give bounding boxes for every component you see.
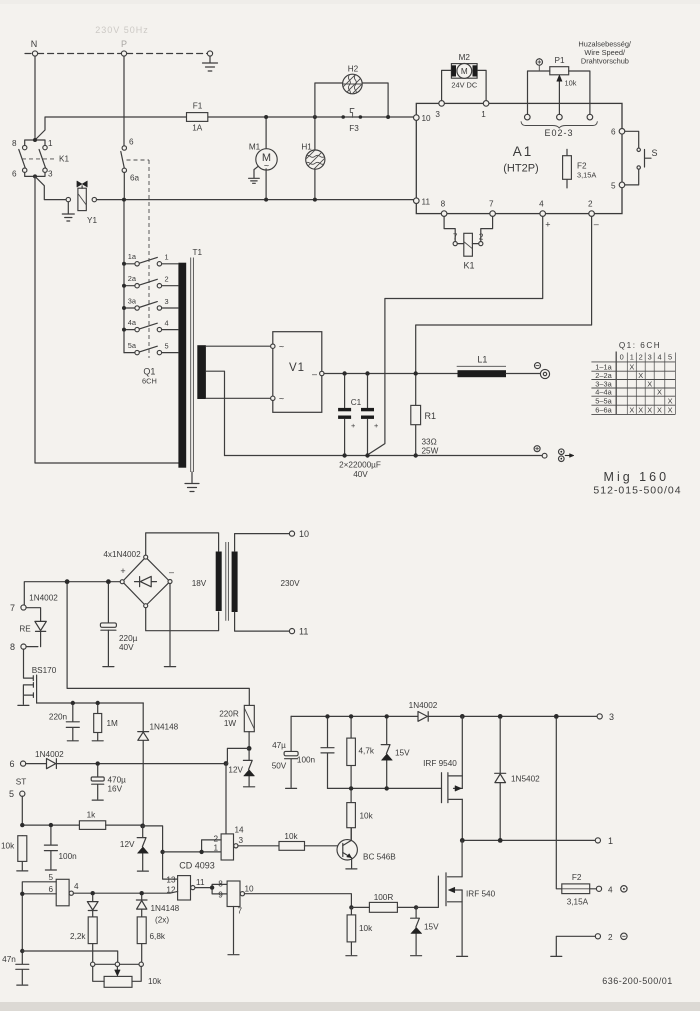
svg-text:H2: H2 [348,65,359,74]
fuse F2 3,15A on A1 [566,149,568,188]
potentiometer P1 10k [550,67,569,75]
resistor 4,7k [350,719,352,789]
svg-text:220µ: 220µ [119,634,138,643]
svg-text:P: P [121,39,127,49]
svg-text:T1: T1 [193,248,203,257]
svg-text:15V: 15V [395,749,410,758]
transformer 18V winding [216,552,222,612]
resistor 10k gate pulldown [346,907,357,955]
svg-text:4: 4 [608,886,613,895]
svg-text:1N4002: 1N4002 [35,750,64,759]
svg-text:3: 3 [165,297,169,306]
svg-text:6: 6 [129,138,134,147]
wire K1 to Y1 rail [35,176,66,199]
switch 6-6a (gas test) [122,146,126,150]
svg-text:2a: 2a [128,274,137,283]
gate D CD4093 driver [227,881,240,907]
svg-text:1N4148: 1N4148 [151,904,180,913]
svg-text:25W: 25W [422,447,439,456]
svg-text:Y1: Y1 [87,216,97,225]
lamp H1 [314,117,316,151]
svg-text:10k: 10k [284,832,298,841]
ground M1 [249,166,260,183]
wire 12V junction to rail [227,748,249,763]
resistor 10k collector [350,791,352,839]
svg-text:4: 4 [74,882,79,891]
wire bridge bottom to 18V winding [146,608,219,631]
svg-text:100R: 100R [374,893,394,902]
relay coil K1 [444,216,493,241]
svg-text:13: 13 [166,876,176,885]
svg-text:8: 8 [218,880,223,889]
svg-text:3: 3 [435,110,440,119]
svg-text:Mig 160: Mig 160 [604,470,669,484]
trimmer 10k [95,963,139,965]
svg-text:2,2k: 2,2k [70,932,86,941]
svg-text:230V: 230V [280,579,300,588]
svg-text:~: ~ [279,394,284,404]
rotary switch Q1 6CH [123,202,125,353]
svg-text:10k: 10k [148,977,162,986]
terminal plus output [534,446,540,452]
svg-text:X: X [657,388,662,397]
zener 12V supply [247,746,252,751]
svg-text:4,7k: 4,7k [359,747,375,756]
wire ramp node to gates [143,826,178,879]
rectifier V1 [273,332,322,413]
svg-text:220R: 220R [219,710,239,719]
wire oscillator output [73,891,177,893]
svg-text:1N4002: 1N4002 [409,701,438,710]
svg-text:X: X [668,397,673,406]
svg-text:1N4148: 1N4148 [150,723,179,732]
svg-text:7: 7 [489,200,494,209]
svg-text:1a: 1a [128,252,137,261]
switch S torch button [625,131,639,185]
svg-text:1N5402: 1N5402 [511,775,540,784]
svg-text:2: 2 [588,200,593,209]
transformer 230V winding [232,552,238,613]
svg-text:X: X [629,406,634,415]
svg-text:IRF 540: IRF 540 [466,890,496,899]
svg-text:Q1: 6CH: Q1: 6CH [619,341,661,350]
svg-text:6a: 6a [130,174,140,183]
zener 12V ramp clamp [140,824,145,829]
svg-text:L1: L1 [477,355,487,365]
svg-text:2: 2 [479,233,484,242]
svg-text:2×22000µF: 2×22000µF [339,461,381,470]
svg-text:5a: 5a [128,341,137,350]
wire +supply rail to terminal 3 [291,715,597,717]
svg-text:1: 1 [630,353,634,362]
connector E02-3 [525,114,531,120]
svg-text:M2: M2 [459,53,471,62]
resistor 100R [351,906,369,908]
svg-text:+: + [120,566,125,576]
svg-text:C1: C1 [351,398,362,407]
svg-text:3a: 3a [128,296,137,305]
svg-text:11: 11 [196,878,205,887]
svg-text:3,15A: 3,15A [577,171,596,180]
wire +24V down-rail to 220R [67,584,249,705]
fan motor M1 [265,117,267,148]
svg-text:2: 2 [608,933,613,942]
svg-text:M: M [461,67,468,76]
svg-text:8: 8 [12,139,17,148]
wire dashed mains line N-P-PE [25,53,207,55]
terminal 5 start [20,791,25,796]
svg-text:N: N [31,39,38,49]
wire feed rollers symbol [559,449,565,455]
resistor 10k start [17,796,28,871]
diode 1N4148 charge [141,895,143,917]
wire output rail to terminal 1 [462,839,595,841]
svg-text:3: 3 [609,712,614,722]
svg-text:5: 5 [48,873,53,882]
solenoid valve Y1 [66,197,70,201]
terminal 1 [595,838,600,843]
fuse F1 1A [187,113,208,122]
svg-text:F2: F2 [572,873,582,882]
svg-text:X: X [629,363,634,372]
transformer T1 secondary [197,345,206,399]
svg-text:BC 546B: BC 546B [363,853,396,862]
transistor BC546B [337,840,357,860]
zener 15V gate [386,719,388,789]
svg-text:10k: 10k [1,842,15,851]
svg-text:X: X [647,379,652,388]
ground T1 core [185,472,199,492]
svg-text:K1: K1 [463,261,474,271]
svg-text:5: 5 [165,341,169,350]
wire A1 pin2 to minus rail [416,216,592,372]
svg-text:9: 9 [218,891,223,900]
svg-text:X: X [647,406,652,415]
svg-text:1: 1 [48,139,53,148]
svg-text:3: 3 [48,170,53,179]
svg-text:3,15A: 3,15A [567,898,589,907]
svg-text:6CH: 6CH [142,377,157,386]
svg-text:50V: 50V [272,762,287,771]
svg-text:+: + [351,421,355,430]
svg-text:8: 8 [10,642,15,652]
svg-text:2: 2 [639,353,643,362]
svg-text:X: X [657,406,662,415]
svg-text:10k: 10k [360,812,374,821]
svg-text:F1: F1 [193,102,203,111]
wire F1 rail to A1 pin10 [35,117,414,140]
svg-text:11: 11 [299,627,308,637]
svg-text:R1: R1 [425,411,437,421]
resistor R1 33R 25W [415,376,417,456]
svg-text:14: 14 [235,826,245,835]
terminal 2 motor minus [595,934,600,939]
svg-text:BS170: BS170 [32,666,57,675]
capacitor 47u 50V [286,716,297,788]
svg-text:7: 7 [453,233,458,242]
wire gate D output to IRF540 [245,894,352,908]
svg-text:4x1N4002: 4x1N4002 [103,550,141,559]
svg-text:5: 5 [9,789,14,799]
svg-text:40V: 40V [353,470,368,479]
svg-text:7: 7 [10,603,15,613]
svg-text:~: ~ [279,342,284,352]
svg-text:636-200-500/01: 636-200-500/01 [602,976,673,986]
resistor 10k base [238,845,279,847]
svg-text:470µ: 470µ [108,776,127,785]
svg-text:4: 4 [657,353,661,362]
capacitor 100n timing [45,827,56,870]
svg-text:1: 1 [165,253,169,262]
svg-text:ST: ST [16,778,26,787]
svg-text:6: 6 [611,128,616,137]
svg-text:1A: 1A [192,124,203,133]
svg-text:220n: 220n [49,713,68,722]
svg-text:5: 5 [668,353,672,362]
ground Y1 [62,202,74,221]
fuse F3 thermal [341,115,345,119]
svg-text:Q1: Q1 [143,367,155,377]
terminal 6 trigger [21,761,26,766]
diode 1N4148 discharge [92,895,94,917]
svg-text:3: 3 [239,836,244,845]
svg-text:10: 10 [245,885,255,894]
zener 15V gate clamp [414,905,418,909]
wire start node to 1k [22,824,79,826]
svg-text:40V: 40V [119,643,134,652]
svg-text:6: 6 [9,759,14,769]
svg-text:4a: 4a [128,318,137,327]
svg-text:2: 2 [165,275,169,284]
svg-text:+: + [545,220,550,230]
terminal 11 mains in [289,629,294,634]
wire N vertical [34,56,36,140]
motor M2 wire feed [442,70,487,100]
svg-text:10: 10 [299,529,309,539]
svg-text:1: 1 [213,844,218,853]
svg-text:1M: 1M [107,719,119,728]
svg-text:5–5a: 5–5a [595,397,612,406]
svg-text:47µ: 47µ [272,741,286,750]
svg-text:IRF 9540: IRF 9540 [423,759,457,768]
svg-text:0: 0 [620,353,624,362]
svg-text:K1: K1 [59,155,69,164]
capacitor 47n [17,951,28,985]
svg-text:1W: 1W [224,719,237,728]
svg-text:47n: 47n [2,955,16,964]
svg-text:100n: 100n [297,756,316,765]
terminal minus output [535,363,541,369]
svg-text:10: 10 [422,114,432,123]
svg-text:1: 1 [608,836,613,846]
control board A1 (HT2P) [416,103,622,213]
svg-text:1: 1 [481,110,486,119]
terminal 3 [597,714,602,719]
svg-text:18V: 18V [192,579,207,588]
wire gate node rail IRF9540 [328,787,442,789]
wire bottom rail Y1 to A1 pin11 [97,199,414,201]
svg-text:512-015-500/04: 512-015-500/04 [593,485,681,497]
svg-text:M1: M1 [249,143,261,152]
svg-text:–: – [312,369,317,379]
svg-text:X: X [668,406,673,415]
wire rail to fuse F2 [556,719,562,889]
resistor 2,2k [88,917,97,944]
svg-text:CD 4093: CD 4093 [179,861,215,871]
gate C CD4093 oscillator [56,879,69,906]
svg-text:S: S [652,148,658,158]
svg-text:(2x): (2x) [155,916,169,925]
resistor 1M [92,705,103,741]
capacitor 220u 40V [107,584,109,666]
svg-text:100n: 100n [59,852,78,861]
wire A1 pin4 to plus rail [368,216,543,455]
svg-text:11: 11 [422,198,431,207]
svg-text:Drahtvorschub: Drahtvorschub [581,57,629,66]
wire bridge minus to 0V bar [169,584,171,666]
wire 12V rail to CD4093 pin14 [225,764,227,834]
svg-text:5: 5 [611,182,616,191]
fuse F2 3,15A output [562,884,590,894]
svg-text:12V: 12V [120,840,135,849]
wire minus rail [324,373,458,375]
gate A CD4093 comparator [221,834,233,860]
svg-text:1k: 1k [87,811,97,820]
svg-text:6–6a: 6–6a [595,406,612,415]
svg-text:7: 7 [238,907,243,916]
svg-text:4: 4 [165,318,169,327]
terminal 4 motor plus [596,886,601,891]
svg-text:X: X [638,406,643,415]
svg-text:F3: F3 [349,124,359,133]
svg-text:X: X [638,371,643,380]
terminal 8 remote [21,644,26,649]
resistor 6,8k [137,917,146,944]
svg-text:–: – [169,567,174,577]
svg-text:24V DC: 24V DC [451,81,478,90]
svg-text:+: + [374,421,378,430]
wire K1 to T1 bottom (left loop) [35,176,178,463]
svg-text:2: 2 [213,835,218,844]
svg-text:E02-3: E02-3 [544,128,573,138]
svg-text:8: 8 [441,200,446,209]
svg-text:1N4002: 1N4002 [29,594,58,603]
gate B CD4093 [178,876,191,900]
switch K1 main contacts [25,140,45,145]
svg-text:A1: A1 [513,144,534,159]
svg-text:12V: 12V [228,766,243,775]
svg-text:P1: P1 [554,56,564,65]
svg-text:V1: V1 [289,362,305,374]
svg-text:10k: 10k [359,924,373,933]
wire plus rail of PSU [24,582,120,605]
svg-text:16V: 16V [108,785,123,794]
wire plus rail [225,455,543,457]
wire bridge top to 18V winding [146,533,219,555]
svg-text:230V 50Hz: 230V 50Hz [95,25,149,35]
svg-text:10k: 10k [565,79,577,88]
terminal 10 mains in [289,531,294,536]
svg-text:RE: RE [19,625,31,634]
svg-text:15V: 15V [424,923,439,932]
svg-text:F2: F2 [577,162,587,171]
svg-text:6: 6 [48,885,53,894]
wire P vertical [123,56,125,146]
svg-text:H1: H1 [301,143,312,152]
svg-text:33Ω: 33Ω [422,438,437,447]
terminal 7 remote [21,605,26,610]
svg-text:–: – [594,219,599,229]
lamp H2 [315,83,388,117]
wire BS170 drain rail [37,702,144,704]
svg-text:4–4a: 4–4a [595,388,612,397]
capacitor 470u 16V [92,766,103,800]
svg-text:6,8k: 6,8k [150,932,166,941]
wire osc node to trimmer wiper [22,951,117,962]
svg-text:4: 4 [539,200,544,209]
svg-text:(HT2P): (HT2P) [503,163,538,175]
A1 pin circles and numbers [414,115,420,121]
svg-text:3: 3 [648,353,652,362]
svg-text:6: 6 [12,170,17,179]
ground PE terminal [207,51,212,56]
